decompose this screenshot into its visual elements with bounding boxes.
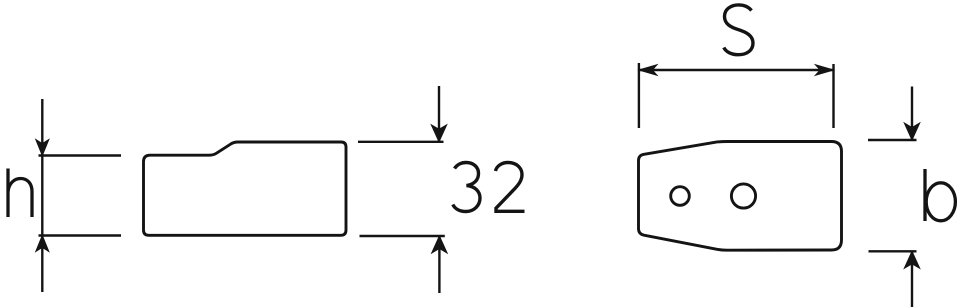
dimension h extension line bottom [39, 234, 122, 236]
dimension 32 arrowhead up [432, 236, 447, 253]
label S [724, 5, 753, 55]
dimension h arrow line [41, 99, 43, 292]
large hole [731, 184, 755, 208]
dimension h arrowhead up [36, 236, 49, 252]
dimension S arrowhead left [639, 65, 657, 76]
dimension b arrowhead down [904, 123, 919, 140]
dimension 32 arrowhead down [431, 125, 446, 142]
side view body outline [144, 142, 347, 235]
small hole [671, 187, 690, 206]
dimension 32 extension line top [358, 141, 444, 143]
dimension 32 extension line bottom [360, 235, 445, 237]
label h [8, 169, 32, 218]
dimension S extension line right [832, 64, 834, 128]
dimension 32 arrow line bottom [438, 236, 440, 293]
label 32 [453, 163, 525, 212]
dimension b arrow line bottom [911, 251, 913, 307]
dimension S arrow line [639, 69, 834, 71]
dimension b extension line bottom [869, 250, 917, 252]
dimension b arrowhead up [904, 251, 919, 268]
dimension b extension line top [868, 139, 917, 141]
dimension b arrow line top [911, 87, 913, 141]
dimension S extension line left [638, 63, 640, 128]
dimension h arrowhead down [36, 140, 49, 156]
dimension h extension line top [39, 154, 122, 156]
dimension 32 arrow line top [438, 86, 440, 142]
dimension S arrowhead right [815, 65, 833, 76]
label b [925, 169, 955, 221]
top view body outline [639, 142, 842, 251]
